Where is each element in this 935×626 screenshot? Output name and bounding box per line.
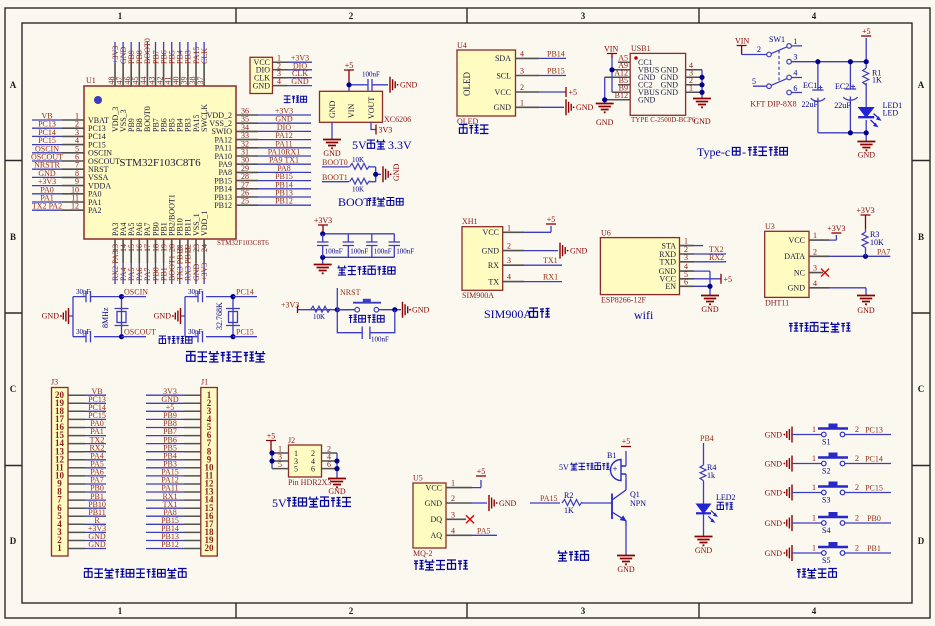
- svg-text:GND: GND: [765, 488, 783, 497]
- reset circuit: [281, 288, 430, 344]
- svg-text:AQ: AQ: [430, 531, 442, 540]
- svg-text:100nF: 100nF: [371, 336, 389, 344]
- svg-text:2: 2: [507, 242, 511, 251]
- svg-text:2: 2: [855, 454, 859, 463]
- capacitor 100nF reset: [362, 327, 370, 340]
- svg-text:6: 6: [793, 84, 797, 93]
- svg-text:+3V3: +3V3: [200, 263, 209, 281]
- ground bar GND: [560, 243, 569, 259]
- switch S4 button: [765, 512, 891, 535]
- svg-text:GND: GND: [596, 118, 614, 127]
- regulator U2 XC6206: [320, 61, 418, 158]
- svg-text:3: 3: [581, 606, 586, 616]
- svg-text:GND: GND: [425, 499, 443, 508]
- svg-text:PB12: PB12: [275, 197, 293, 206]
- svg-text:PC14: PC14: [865, 454, 883, 463]
- svg-text:TX2 PA2: TX2 PA2: [32, 202, 62, 211]
- ground bar GND: [784, 456, 793, 472]
- svg-text:TYPE C-2500D-BCP6: TYPE C-2500D-BCP6: [631, 116, 696, 124]
- svg-text:1K: 1K: [564, 506, 574, 515]
- ground: [857, 296, 875, 305]
- download port pin stubs: [273, 62, 288, 85]
- svg-text:C: C: [10, 384, 17, 394]
- U1 right pin stubs: [236, 115, 258, 205]
- Type-C power rail EC1 EC2 R1 LED1: [791, 27, 902, 160]
- switch S2 button: [765, 453, 891, 476]
- wire right GND bus: [701, 70, 703, 98]
- svg-text:100nF: 100nF: [362, 71, 380, 79]
- svg-text:GND: GND: [499, 499, 517, 508]
- svg-text:U4: U4: [457, 41, 467, 50]
- svg-text:VOUT: VOUT: [367, 97, 376, 119]
- U3 pin stubs: [809, 240, 829, 288]
- USB1 Type-C connector: [596, 44, 711, 127]
- svg-text:30pF: 30pF: [188, 288, 203, 296]
- power 3V3: [375, 125, 377, 135]
- download port connector: [250, 54, 312, 94]
- svg-text:STM32F103C8T6: STM32F103C8T6: [119, 157, 201, 169]
- capacitor 30pF bottom: [198, 331, 203, 342]
- svg-text:10K: 10K: [352, 186, 364, 194]
- svg-text:LED: LED: [883, 109, 899, 118]
- svg-text:S2: S2: [822, 467, 830, 476]
- svg-text:1: 1: [507, 223, 511, 232]
- svg-text:RX1: RX1: [543, 273, 558, 282]
- caption Type-c power circuit: [697, 145, 787, 159]
- caption independent buttons: [797, 568, 837, 578]
- node PA5: [472, 534, 497, 536]
- switch S5 button: [765, 542, 891, 565]
- svg-text:+3V3: +3V3: [827, 224, 845, 233]
- svg-text:J2: J2: [288, 436, 295, 445]
- svg-text:C: C: [918, 384, 925, 394]
- switch S1 button: [765, 424, 891, 447]
- BOOT setting circuit: [322, 156, 401, 194]
- svg-text:3: 3: [793, 53, 797, 62]
- ground: [314, 265, 332, 274]
- U5 pin stubs: [446, 488, 472, 536]
- svg-text:3V3: 3V3: [379, 126, 393, 135]
- svg-text:PB12: PB12: [161, 540, 179, 549]
- svg-text:+5: +5: [345, 61, 354, 70]
- ground: [695, 537, 713, 546]
- ground bar GND: [784, 427, 793, 443]
- svg-text:NPN: NPN: [630, 499, 646, 508]
- J1 pin stubs: [184, 395, 201, 548]
- svg-text:2: 2: [855, 425, 859, 434]
- svg-text:XC6206: XC6206: [384, 115, 411, 124]
- svg-text:100nF: 100nF: [350, 248, 368, 256]
- svg-text:24: 24: [200, 244, 209, 252]
- wifi module U6 ESP8266-12F: [600, 229, 732, 315]
- switch S3 button: [765, 482, 891, 505]
- svg-text:PC15: PC15: [236, 328, 254, 337]
- svg-text:4: 4: [812, 11, 817, 21]
- resistor R3 10K: [865, 229, 867, 232]
- J2 right pin stubs: [322, 453, 338, 469]
- svg-text:+: +: [613, 464, 618, 474]
- caption MCU minimum system: [186, 351, 265, 362]
- svg-text:J3: J3: [51, 378, 58, 387]
- svg-text:A: A: [10, 80, 17, 90]
- svg-text:+3V3: +3V3: [281, 301, 299, 310]
- svg-text:100nF: 100nF: [374, 248, 392, 256]
- svg-text:VIN: VIN: [347, 104, 356, 118]
- no-connect X pin3: [821, 269, 829, 277]
- wire to gnd: [703, 515, 705, 537]
- svg-text:DATA: DATA: [784, 252, 805, 261]
- wire J2 left bus: [271, 453, 273, 469]
- J2 left pin stubs: [272, 453, 289, 469]
- svg-text:4: 4: [507, 273, 511, 282]
- svg-text:20: 20: [205, 543, 215, 553]
- svg-text:2: 2: [855, 483, 859, 492]
- wire left nets U1: [32, 120, 62, 210]
- svg-text:USB1: USB1: [631, 44, 651, 53]
- svg-text:+5: +5: [862, 27, 871, 36]
- wire gnd to button: [792, 463, 822, 465]
- svg-text:PB0: PB0: [867, 514, 881, 523]
- svg-text:3: 3: [451, 510, 455, 519]
- capacitor 100nF: [368, 79, 388, 91]
- svg-text:PC15: PC15: [865, 483, 883, 492]
- svg-text:2: 2: [855, 544, 859, 553]
- wire crystal left: [69, 297, 122, 337]
- node OSCOUT: [122, 336, 147, 338]
- svg-text:PC14: PC14: [236, 288, 254, 297]
- switch SW1 KFT DIP-8X8: [735, 35, 802, 108]
- USB1 right pin stubs: [686, 70, 702, 93]
- svg-text:+5: +5: [477, 467, 486, 476]
- svg-text:30pF: 30pF: [76, 328, 91, 336]
- wire pin1 to +3V3: [829, 235, 836, 240]
- svg-text:GND: GND: [482, 246, 500, 255]
- svg-text:B12: B12: [615, 91, 628, 100]
- capacitor 30pF top: [86, 291, 91, 302]
- wire NRST riser: [336, 288, 338, 310]
- capacitor C 100nF 2: [343, 234, 354, 257]
- capacitor C 100nF 1: [317, 234, 329, 257]
- node OSCIN: [122, 296, 147, 298]
- svg-text:1: 1: [57, 543, 62, 553]
- svg-text:2: 2: [855, 514, 859, 523]
- wire pin1 to +5: [472, 480, 481, 488]
- svg-text:2: 2: [757, 45, 761, 54]
- svg-text:2: 2: [520, 83, 524, 92]
- svg-text:OSCIN: OSCIN: [124, 288, 148, 297]
- wire button to net: [845, 552, 891, 554]
- resistor 10K: [311, 306, 331, 312]
- svg-text:1: 1: [520, 98, 524, 107]
- svg-text:GND: GND: [570, 246, 588, 255]
- svg-text:PC13: PC13: [865, 425, 883, 434]
- svg-text:Pin HDR2X3: Pin HDR2X3: [288, 478, 331, 487]
- svg-text:CLK: CLK: [200, 48, 209, 64]
- caption crystal circuit: [159, 336, 192, 344]
- svg-text:B: B: [10, 232, 16, 242]
- ground bar GND: [383, 166, 392, 182]
- svg-text:8MHz: 8MHz: [101, 307, 110, 328]
- svg-text:VCC: VCC: [495, 88, 511, 97]
- wire +5 bus: [791, 38, 866, 141]
- svg-text:GND: GND: [412, 306, 430, 315]
- svg-text:1: 1: [812, 514, 816, 523]
- wire J3 nets: [85, 395, 106, 548]
- svg-text:6: 6: [327, 460, 331, 469]
- capacitor 30pF bottom: [86, 331, 91, 342]
- svg-text:+3V3: +3V3: [314, 216, 332, 225]
- svg-text:25: 25: [241, 197, 249, 206]
- svg-text:3.3V: 3.3V: [388, 138, 412, 152]
- svg-text:B: B: [918, 232, 924, 242]
- ground bar GND: [784, 485, 793, 501]
- svg-text:32.768K: 32.768K: [215, 302, 224, 330]
- wire J1 nets: [146, 395, 184, 548]
- ground: [693, 99, 711, 108]
- wire vcc to +5: [694, 278, 721, 280]
- svg-text:22uF: 22uF: [834, 101, 851, 110]
- svg-text:GND: GND: [494, 103, 512, 112]
- ground bar GND: [566, 99, 575, 115]
- svg-text:STM32F103C8T6: STM32F103C8T6: [217, 239, 269, 247]
- wire gnd to button: [792, 522, 822, 524]
- caption reset circuit: [349, 315, 384, 323]
- svg-text:LED2: LED2: [716, 493, 736, 502]
- svg-text:GND: GND: [328, 487, 346, 496]
- caption display screen: [459, 125, 488, 135]
- svg-text:Q1: Q1: [630, 490, 640, 499]
- svg-text:3: 3: [813, 264, 817, 273]
- svg-text:GND: GND: [42, 312, 60, 321]
- svg-text:GND: GND: [323, 149, 341, 158]
- wire VIN to sw pin2: [742, 54, 767, 56]
- node TX1: [524, 264, 562, 266]
- ground bar GND: [784, 515, 793, 531]
- power +5: [565, 87, 567, 97]
- svg-text:GND: GND: [88, 540, 106, 549]
- ground bar GND: [784, 545, 793, 561]
- svg-text:TX: TX: [488, 277, 499, 286]
- caption 5V active buzzer: [559, 462, 610, 472]
- U1 bottom pin stubs: [115, 239, 204, 263]
- crystal Y1 8MHz: [115, 309, 129, 326]
- svg-text:3: 3: [684, 253, 688, 262]
- caption temperature humidity sensor: [789, 322, 851, 332]
- buzzer circuit B1 Q1: [530, 437, 646, 574]
- resistor R2 1K: [562, 500, 582, 506]
- svg-text:OLED: OLED: [462, 72, 472, 96]
- svg-text:PB15: PB15: [547, 67, 565, 76]
- svg-text:EN: EN: [665, 282, 676, 291]
- svg-text:PA5: PA5: [477, 526, 491, 535]
- node PC15: [233, 336, 257, 338]
- wire bottom nets U1: [115, 263, 204, 284]
- wire gnd to button: [792, 552, 822, 554]
- caption MCU pin breakout header: [84, 568, 187, 578]
- OLED display U4: [457, 41, 594, 126]
- power +5: [720, 274, 722, 284]
- wire cap rails: [323, 234, 395, 264]
- resistor R4 1k: [700, 465, 706, 481]
- J3 pin stubs: [68, 395, 85, 548]
- wire download nets: [288, 62, 313, 85]
- svg-text:1: 1: [451, 479, 455, 488]
- svg-text:R2: R2: [564, 491, 573, 500]
- wire gnd to button: [792, 434, 822, 436]
- svg-text:GND: GND: [765, 549, 783, 558]
- wire to resistor: [298, 309, 350, 311]
- wire GND pin down: [331, 122, 333, 139]
- svg-text:GND: GND: [400, 81, 418, 90]
- svg-text:U6: U6: [601, 229, 611, 238]
- caption SIM900A module: [484, 307, 550, 321]
- svg-text:GND: GND: [788, 284, 806, 293]
- svg-text:VIN: VIN: [735, 37, 749, 46]
- svg-text:1: 1: [118, 606, 123, 616]
- caption download port: [284, 96, 307, 103]
- svg-text:6: 6: [311, 465, 315, 474]
- resistor 10K bottom: [350, 178, 370, 184]
- svg-text:10K: 10K: [313, 313, 325, 321]
- caption BOOT setting: [338, 195, 403, 209]
- node PC14: [233, 296, 257, 298]
- svg-text:PB12: PB12: [214, 201, 232, 210]
- ground: [596, 104, 614, 113]
- ground bar GND: [390, 77, 399, 93]
- ground: [323, 140, 341, 149]
- svg-text:1: 1: [118, 11, 123, 21]
- svg-text:10K: 10K: [352, 156, 364, 164]
- svg-text:KFT DIP-8X8: KFT DIP-8X8: [750, 99, 796, 108]
- wire collector buzzer: [625, 451, 627, 480]
- svg-text:GND: GND: [661, 88, 679, 97]
- svg-text:6: 6: [684, 277, 688, 286]
- wire pin4 gnd: [829, 288, 866, 295]
- svg-text:2: 2: [813, 247, 817, 256]
- wire BOOT1: [322, 181, 349, 183]
- svg-text:GND: GND: [765, 459, 783, 468]
- wire GND pins left: [604, 77, 606, 103]
- svg-text:J1: J1: [201, 378, 208, 387]
- svg-text:SIM900A: SIM900A: [484, 307, 532, 321]
- svg-text:+5: +5: [569, 88, 578, 97]
- svg-text:VCC: VCC: [426, 483, 442, 492]
- wire XH1 pin2 gnd: [524, 250, 558, 252]
- svg-text:ESP8266-12F: ESP8266-12F: [601, 296, 646, 305]
- svg-text:3: 3: [581, 11, 586, 21]
- svg-text:1: 1: [793, 37, 797, 46]
- svg-text:5: 5: [278, 460, 282, 469]
- svg-text:GND: GND: [701, 305, 719, 314]
- svg-text:1: 1: [812, 425, 816, 434]
- svg-text:RX: RX: [488, 261, 499, 270]
- svg-text:TX1: TX1: [543, 256, 558, 265]
- svg-text:2: 2: [349, 11, 354, 21]
- svg-text:GND: GND: [291, 77, 309, 86]
- svg-text:1: 1: [812, 483, 816, 492]
- svg-text:+5: +5: [547, 215, 556, 224]
- connector J3 header: [51, 378, 106, 557]
- svg-text:MQ-2: MQ-2: [413, 549, 433, 558]
- svg-text:S5: S5: [822, 556, 830, 565]
- wire pin1 stub: [694, 245, 703, 247]
- svg-text:5: 5: [294, 465, 298, 474]
- caption chip filter caps: [337, 266, 395, 275]
- transistor Q1 NPN: [612, 480, 626, 525]
- chip filter capacitors: [314, 216, 415, 273]
- svg-text:GND: GND: [576, 103, 594, 112]
- crystal circuit 32.768K: [154, 288, 257, 343]
- ground bar GND: [489, 495, 498, 511]
- svg-text:S4: S4: [822, 526, 830, 535]
- LED2 circuit: [695, 434, 736, 555]
- wire gnd to button: [792, 492, 822, 494]
- svg-text:DHT11: DHT11: [765, 299, 789, 308]
- svg-text:GND: GND: [857, 306, 875, 315]
- crystal Y2 32.768K: [226, 309, 240, 326]
- svg-text:GND: GND: [638, 96, 656, 105]
- svg-text:SWCLK: SWCLK: [200, 104, 209, 132]
- U1 top pin stubs: [115, 63, 204, 86]
- svg-text:EC1: EC1: [803, 81, 817, 90]
- caption 5V external backup power: [272, 496, 351, 510]
- caption 5V step-down 3.3V: [352, 138, 412, 152]
- wire base: [582, 502, 612, 504]
- svg-text:BOOT0: BOOT0: [322, 158, 348, 167]
- svg-text:5V: 5V: [352, 138, 367, 152]
- wire join: [370, 167, 382, 182]
- crystal circuit 8MHz: [42, 288, 156, 343]
- node TX2: [694, 253, 726, 255]
- svg-text:BOOT: BOOT: [338, 195, 371, 209]
- wire DATA net PA7: [829, 255, 890, 257]
- U6 pin stubs: [680, 246, 695, 287]
- svg-text:4: 4: [451, 526, 455, 535]
- svg-text:4: 4: [812, 606, 817, 616]
- svg-text:S3: S3: [822, 496, 830, 505]
- svg-text:PA2: PA2: [88, 206, 102, 215]
- svg-text:1: 1: [813, 231, 817, 240]
- svg-text:4: 4: [813, 279, 817, 288]
- caption buzzer: [558, 551, 590, 562]
- LED2 green: [696, 504, 711, 513]
- svg-text:+5: +5: [622, 437, 631, 446]
- svg-text:-: -: [742, 145, 746, 159]
- DHT11 sensor U3: [765, 206, 891, 315]
- wire top nets U1: [115, 42, 204, 63]
- ground: [328, 479, 346, 488]
- svg-text:30pF: 30pF: [76, 288, 91, 296]
- svg-text:1: 1: [689, 83, 693, 92]
- svg-text:RX2: RX2: [709, 253, 724, 262]
- svg-text:NC: NC: [794, 268, 805, 277]
- wire button to net: [845, 492, 891, 494]
- svg-text:GND: GND: [253, 81, 271, 90]
- wire XH1 pin1 to +5: [524, 226, 551, 232]
- svg-text:100nF: 100nF: [396, 248, 414, 256]
- svg-text:+3V3: +3V3: [856, 206, 874, 215]
- svg-text:4: 4: [793, 69, 797, 78]
- svg-text:U3: U3: [765, 222, 775, 231]
- switch poles: [767, 44, 792, 95]
- svg-text:SDA: SDA: [495, 54, 511, 63]
- node RX2: [694, 261, 726, 263]
- wire BOOT0: [322, 166, 349, 168]
- svg-text:GND: GND: [858, 151, 876, 160]
- capacitor C 100nF 3: [366, 234, 377, 257]
- svg-text:S1: S1: [822, 438, 830, 447]
- svg-text:3: 3: [507, 256, 511, 265]
